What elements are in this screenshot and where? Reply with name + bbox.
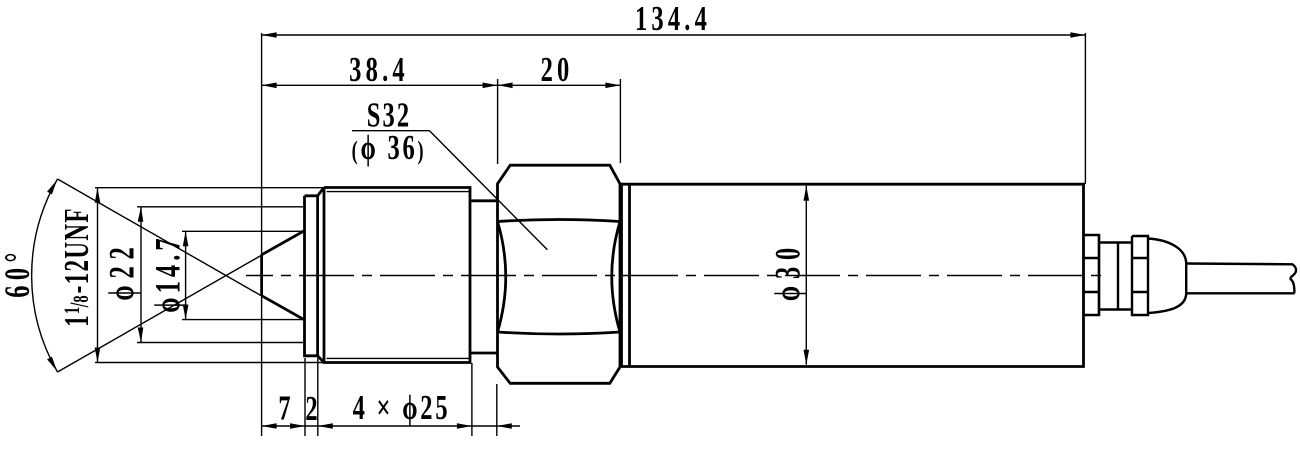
- wire extension line y231.3 left: [182, 230, 305, 232]
- centerline: [246, 275, 1102, 277]
- arrow 134.4 right: [1070, 32, 1085, 38]
- arrow phi14.7 bottom: [183, 305, 189, 320]
- cable break: [1290, 264, 1296, 293]
- dimension phi14.7 line: [185, 231, 187, 319]
- svg-text:4 × ϕ25: 4 × ϕ25: [353, 388, 451, 427]
- hex face line upper: [498, 220, 621, 222]
- cable bottom: [1186, 292, 1294, 294]
- hex nut outline: [498, 165, 621, 383]
- arrow arc top: [47, 180, 57, 194]
- collar chamfer bottom: [318, 356, 324, 363]
- arrow phi14.7 top: [183, 231, 189, 246]
- wire extension line y362.5 left: [95, 362, 330, 364]
- wire extension line x620 top: [619, 79, 621, 163]
- arrow UNF top: [95, 188, 101, 203]
- dimension 1-1/8-12UNF line: [97, 188, 99, 363]
- svg-text:(ϕ 36): (ϕ 36): [352, 128, 427, 167]
- gland block A: [1084, 235, 1100, 315]
- arrow arc bottom: [47, 357, 57, 371]
- gland block B and C: [1099, 235, 1132, 315]
- wire extension line y206.8 left: [137, 206, 305, 208]
- 60 degree construction line B: [58, 179, 305, 321]
- thread minor top: [327, 191, 471, 193]
- gland block D: [1132, 236, 1148, 315]
- svg-text:20: 20: [541, 50, 574, 89]
- arrow 20 right: [605, 83, 620, 89]
- arrow neck right outside: [497, 423, 512, 429]
- cone bottom edge: [262, 296, 305, 320]
- thin thread lines: [327, 192, 471, 359]
- 60 degree dimension arc: [32, 179, 58, 372]
- arrows: [47, 32, 1085, 429]
- thread minor bottom: [327, 357, 471, 359]
- svg-text:134.4: 134.4: [635, 0, 711, 38]
- wire extension line x305 bottom: [304, 358, 306, 436]
- svg-text:2: 2: [305, 389, 317, 428]
- dimension 38.4 and 20 line: [262, 84, 621, 86]
- arrow 2 right outside: [318, 423, 333, 429]
- arrow UNF bottom: [95, 348, 101, 363]
- neck: [470, 201, 498, 353]
- wire extension line y187.7 left: [95, 187, 324, 189]
- wire extension line y342.5 left: [137, 342, 305, 344]
- thread body: [324, 188, 470, 363]
- svg-text:7: 7: [278, 388, 290, 427]
- dimension 134.4 line: [262, 34, 1086, 36]
- collar chamfer top: [318, 188, 324, 196]
- arrow phi30 top: [804, 186, 810, 201]
- wire extension line x1085: [1084, 33, 1086, 184]
- part outlines, thick: [262, 165, 1084, 383]
- arrow 20 left: [498, 83, 513, 89]
- hex waist arc left: [498, 222, 506, 333]
- dimension bottom chain line: [262, 425, 520, 427]
- svg-text:ϕ22: ϕ22: [102, 240, 142, 300]
- arrow 4x25 right: [457, 423, 472, 429]
- leader S32 slant: [430, 131, 548, 250]
- main body joint line: [628, 184, 631, 366]
- 60 degree construction line A: [58, 231, 305, 372]
- svg-text:ϕ30: ϕ30: [768, 241, 808, 301]
- dimension phi30 line: [805, 186, 807, 365]
- arrow phi22 bottom: [138, 328, 144, 343]
- gland dome: [1148, 239, 1186, 314]
- arrow 7 right: [290, 423, 305, 429]
- leader S32 underline: [352, 130, 430, 132]
- arrow phi22 top: [138, 207, 144, 222]
- wire extension line x497 top: [497, 79, 499, 164]
- collar: [305, 196, 318, 356]
- wire extension line x472 bottom: [471, 363, 473, 436]
- svg-text:38.4: 38.4: [349, 50, 409, 89]
- cable top: [1186, 262, 1293, 265]
- svg-text:ϕ14.7: ϕ14.7: [148, 234, 188, 312]
- wire extension line x497 bottom: [496, 384, 498, 436]
- hex face line lower: [498, 332, 621, 334]
- main body: [622, 184, 1084, 366]
- cable gland, medium: [1084, 235, 1297, 315]
- cone top edge: [262, 231, 305, 255]
- wire extension line x318 bottom: [317, 358, 319, 436]
- wire extension line y319.6 left: [182, 319, 305, 321]
- svg-text:60°: 60°: [0, 247, 37, 298]
- arrow 38.4 right: [483, 83, 498, 89]
- dimension phi22 line: [140, 207, 142, 343]
- arrow 38.4 left: [262, 83, 277, 89]
- arrow 7 left: [262, 423, 277, 429]
- cone tip face: [260, 255, 263, 296]
- arrow phi30 bottom: [804, 350, 810, 365]
- wire extension line x262: [261, 33, 263, 436]
- arrow 134.4 left: [262, 32, 277, 38]
- hex waist arc right: [612, 222, 620, 333]
